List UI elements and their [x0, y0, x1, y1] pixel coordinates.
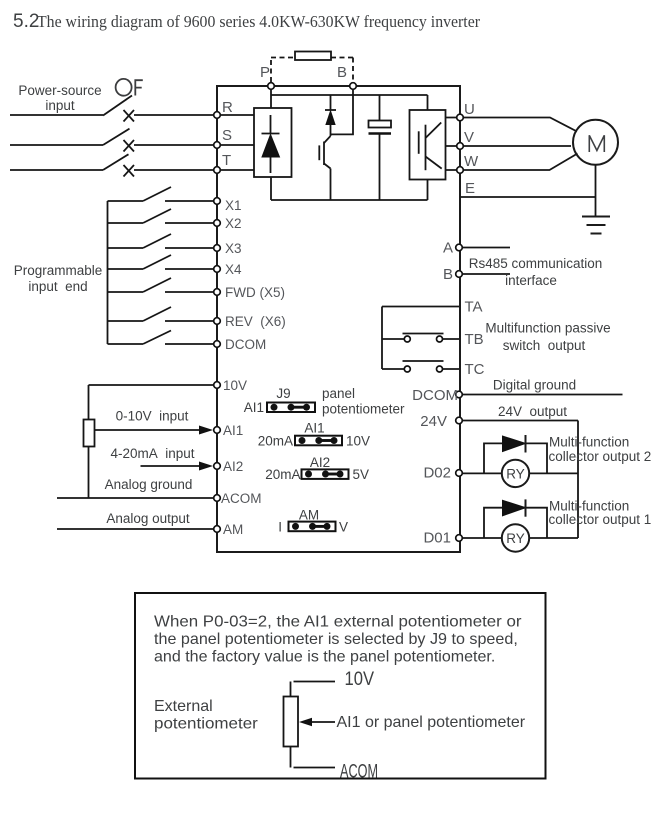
AI2 arrow wire	[141, 462, 214, 471]
svg-text:AI2: AI2	[223, 459, 243, 474]
svg-text:A: A	[443, 240, 453, 257]
wire inverter bottom	[427, 180, 429, 201]
svg-text:panel: panel	[322, 386, 355, 401]
note ACOM wire	[291, 747, 336, 768]
brake chopper IGBT	[319, 136, 330, 200]
jumper AI1	[295, 436, 342, 446]
terminal AM	[214, 526, 221, 533]
svg-text:Analog output: Analog output	[106, 511, 190, 526]
svg-text:B: B	[443, 266, 453, 283]
svg-text:Multi-function: Multi-function	[549, 435, 629, 450]
wire phase1 left	[10, 114, 103, 116]
svg-text:The wiring diagram of 9600 ser: The wiring diagram of 9600 series 4.0KW-…	[37, 12, 480, 31]
svg-text:4-20mA input: 4-20mA input	[110, 446, 194, 461]
wire E	[460, 196, 596, 198]
jumper AI2	[302, 469, 349, 479]
NOTE BOX	[135, 593, 546, 779]
terminal AI1	[214, 427, 221, 434]
wire phase3 right	[134, 169, 217, 171]
note 10V wire	[291, 682, 336, 697]
svg-text:REV (X6): REV (X6)	[225, 314, 286, 329]
rectifier box	[254, 108, 292, 177]
svg-text:X4: X4	[225, 262, 242, 277]
wire W	[446, 154, 578, 171]
terminal V	[457, 143, 464, 150]
X1 switch	[108, 187, 218, 201]
svg-text:FWD (X5): FWD (X5)	[225, 285, 285, 300]
wire ACOM	[57, 497, 217, 499]
terminal DCOM right	[456, 391, 463, 398]
label collector output 2	[549, 435, 652, 465]
D01 wire	[463, 537, 579, 539]
svg-text:I: I	[278, 520, 282, 535]
wire rectifier bottom	[270, 177, 272, 200]
motor M	[573, 120, 618, 165]
terminal AI2	[214, 463, 221, 470]
svg-text:R: R	[222, 99, 233, 116]
svg-text:Rs485 communication: Rs485 communication	[469, 256, 603, 271]
svg-text:5V: 5V	[353, 467, 370, 482]
svg-text:Programmable: Programmable	[14, 263, 103, 278]
terminal U	[457, 114, 464, 121]
svg-text:AM: AM	[299, 508, 319, 523]
dc bus capacitor	[369, 95, 392, 200]
wire TA	[382, 306, 459, 308]
wiper arrow	[299, 718, 335, 726]
svg-text:switch output: switch output	[503, 338, 586, 353]
wire 24V	[463, 420, 579, 422]
svg-text:TB: TB	[465, 331, 484, 348]
input common bus	[107, 201, 109, 344]
X mark phase2	[124, 140, 135, 152]
terminal B	[350, 83, 357, 90]
X mark phase1	[124, 110, 135, 122]
svg-text:24V: 24V	[420, 413, 447, 430]
rectifier diode	[262, 115, 280, 173]
relay RY 1	[502, 524, 529, 551]
label collector output 1	[549, 499, 652, 528]
terminal R	[214, 112, 221, 119]
svg-text:AI1 or panel potentiometer: AI1 or panel potentiometer	[337, 714, 526, 731]
terminal 10V	[214, 382, 221, 389]
svg-text:Multifunction passive: Multifunction passive	[485, 321, 610, 336]
svg-text:TC: TC	[465, 361, 485, 378]
wire phase2 left	[10, 144, 103, 146]
D01 diode loop	[484, 508, 547, 538]
D02 diode loop	[484, 443, 547, 473]
ground symbol	[582, 217, 610, 234]
svg-text:Digital ground: Digital ground	[493, 378, 576, 393]
X3 switch	[108, 234, 218, 248]
relay RY 2	[502, 460, 529, 487]
jumper AM	[289, 522, 336, 532]
terminal FWD (X5)	[214, 289, 221, 296]
terminal X2	[214, 220, 221, 227]
D02 flyback diode	[503, 435, 526, 453]
wire B485	[463, 273, 511, 275]
wire motor to ground	[595, 165, 597, 217]
svg-text:Power-source: Power-source	[18, 83, 101, 98]
TB contact	[382, 334, 459, 343]
wire V	[446, 145, 572, 147]
terminal ACOM	[214, 495, 221, 502]
terminal W	[457, 167, 464, 174]
svg-text:B: B	[337, 64, 347, 81]
svg-text:X2: X2	[225, 216, 242, 231]
DCOM switch	[108, 331, 218, 345]
svg-text:20mA: 20mA	[258, 434, 293, 449]
X2 switch	[108, 209, 218, 223]
terminal REV (X6)	[214, 318, 221, 325]
svg-text:AI2: AI2	[310, 455, 330, 470]
inverter box	[410, 110, 446, 180]
D02 wire	[463, 472, 579, 474]
svg-text:RY: RY	[506, 466, 525, 481]
wire B down to chopper	[331, 90, 354, 135]
DC bus top	[271, 94, 428, 96]
svg-text:0-10V input: 0-10V input	[116, 409, 189, 424]
svg-text:Analog ground: Analog ground	[105, 477, 193, 492]
terminal A	[456, 244, 463, 251]
input potentiometer	[84, 420, 95, 447]
terminal P	[268, 83, 275, 90]
svg-text:AM: AM	[223, 522, 243, 537]
svg-text:When P0-03=2, the AI1 external: When P0-03=2, the AI1 external potentiom…	[154, 614, 522, 631]
svg-text:U: U	[464, 101, 475, 118]
svg-text:AI1: AI1	[244, 400, 264, 415]
wire phase2 right	[134, 144, 217, 146]
dashed wire P to resistor	[271, 58, 295, 83]
relay left bus	[381, 307, 383, 370]
svg-text:potentiometer: potentiometer	[322, 402, 405, 417]
FWD switch	[108, 278, 218, 292]
braking resistor	[295, 52, 331, 61]
REV switch	[108, 307, 218, 321]
svg-text:input: input	[45, 98, 75, 113]
svg-text:TA: TA	[465, 299, 483, 316]
label multifunction passive	[485, 321, 610, 354]
svg-text:20mA: 20mA	[265, 467, 300, 482]
switch blade phase3	[103, 154, 129, 170]
wire 10V	[89, 384, 218, 386]
wire P down to rectifier	[270, 90, 272, 109]
jumper J9	[267, 403, 315, 413]
terminal D01	[456, 535, 463, 542]
svg-text:24V output: 24V output	[498, 404, 567, 419]
label programmable input end	[14, 263, 103, 294]
D01 flyback diode	[503, 499, 526, 516]
switch blade phase2	[103, 129, 130, 145]
inverter main box	[217, 86, 460, 552]
svg-text:collector output 2: collector output 2	[549, 449, 652, 464]
svg-text:10V: 10V	[223, 378, 247, 393]
label rs485	[469, 256, 603, 288]
AI1 arrow wire	[95, 426, 214, 435]
svg-text:DCOM: DCOM	[225, 337, 266, 352]
wire U	[446, 118, 578, 132]
svg-text:J9: J9	[276, 386, 290, 401]
X4 switch	[108, 255, 218, 269]
svg-text:5.2: 5.2	[13, 11, 39, 32]
terminal DCOM	[214, 341, 221, 348]
terminal D02	[456, 470, 463, 477]
svg-text:ACOM: ACOM	[340, 762, 378, 783]
terminal S	[214, 142, 221, 149]
pot branch wire	[88, 385, 90, 498]
svg-text:D02: D02	[423, 465, 451, 482]
switch blade phase1	[103, 96, 132, 116]
svg-text:V: V	[339, 520, 348, 535]
svg-text:input end: input end	[28, 279, 87, 294]
svg-text:potentiometer: potentiometer	[154, 716, 259, 733]
svg-text:V: V	[464, 129, 474, 146]
svg-text:E: E	[465, 180, 475, 197]
svg-text:S: S	[222, 127, 232, 144]
wire inverter top	[427, 95, 429, 110]
svg-text:P: P	[260, 64, 270, 81]
external potentiometer	[284, 697, 299, 747]
wire S to rectifier	[221, 144, 255, 146]
svg-text:D01: D01	[423, 530, 451, 547]
terminal B485	[456, 271, 463, 278]
breaker QF label	[116, 79, 143, 96]
svg-text:ACOM: ACOM	[221, 491, 262, 506]
inverter IGBT glyph	[419, 123, 442, 171]
svg-text:AI1: AI1	[304, 421, 324, 436]
svg-text:the panel potentiometer is sel: the panel potentiometer is selected by J…	[154, 631, 518, 648]
wire AM	[57, 528, 217, 530]
svg-text:10V: 10V	[346, 434, 370, 449]
wire T to rectifier	[221, 169, 255, 171]
terminal 24V	[456, 417, 463, 424]
brake chopper diode	[325, 95, 336, 136]
svg-text:X3: X3	[225, 241, 242, 256]
wire phase3 left	[10, 169, 103, 171]
wire phase1 right	[134, 114, 217, 116]
right rail	[577, 421, 579, 539]
note text	[154, 614, 522, 666]
dashed wire resistor to B	[331, 58, 353, 83]
svg-text:interface: interface	[505, 273, 557, 288]
X mark phase3	[124, 165, 135, 177]
svg-text:RY: RY	[506, 531, 525, 546]
svg-text:W: W	[464, 153, 479, 170]
svg-text:T: T	[222, 152, 231, 169]
svg-text:10V: 10V	[345, 669, 375, 690]
svg-text:DCOM: DCOM	[412, 387, 458, 404]
terminal X3	[214, 245, 221, 252]
wire A	[463, 247, 511, 249]
terminal X1	[214, 198, 221, 205]
svg-text:External: External	[154, 698, 213, 715]
svg-text:AI1: AI1	[223, 423, 243, 438]
DC bus bottom	[271, 199, 428, 201]
wire R to rectifier	[221, 114, 255, 116]
terminal T	[214, 167, 221, 174]
svg-text:collector output 1: collector output 1	[549, 512, 652, 527]
label external potentiometer	[154, 698, 259, 733]
svg-text:and the factory value is the p: and the factory value is the panel poten…	[154, 649, 495, 666]
TC contact	[382, 361, 459, 372]
svg-text:X1: X1	[225, 198, 242, 213]
label power-source input	[18, 83, 101, 113]
title	[13, 11, 480, 32]
wire digital ground	[463, 394, 623, 396]
terminal X4	[214, 266, 221, 273]
